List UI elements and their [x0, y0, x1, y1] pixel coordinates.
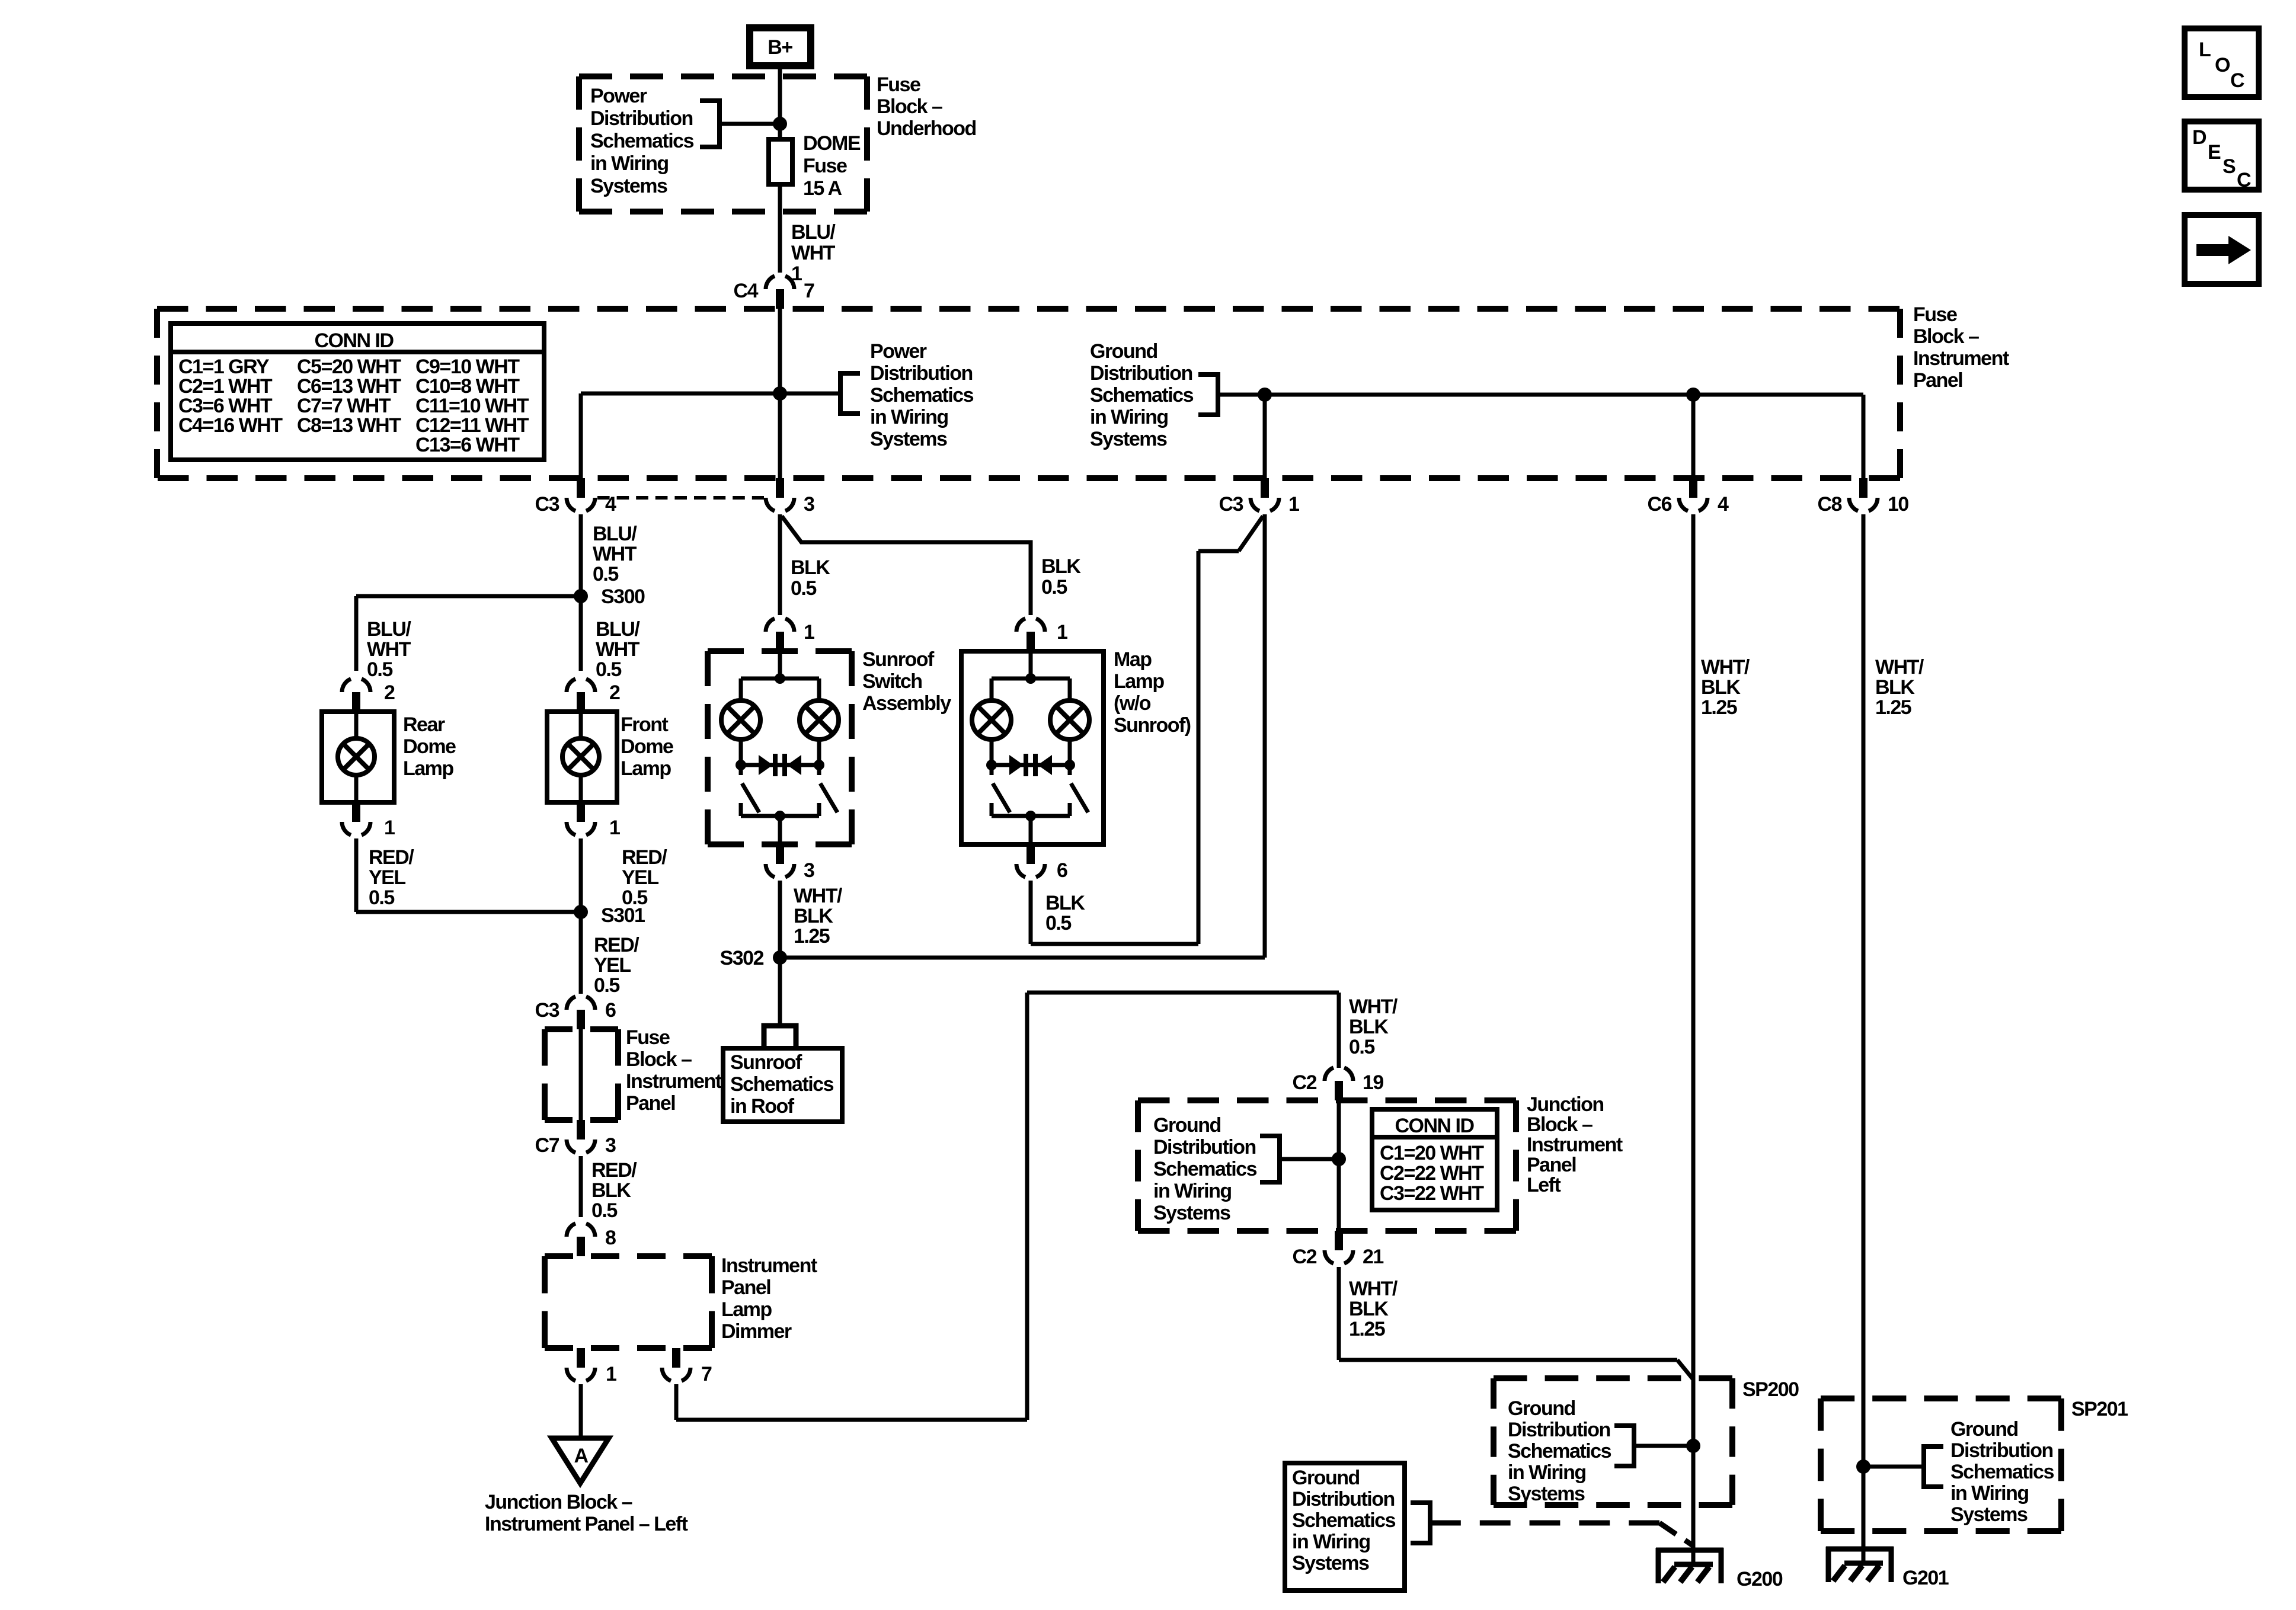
- svg-text:Panel: Panel: [721, 1276, 770, 1299]
- wire B+ to fuse: [778, 69, 782, 139]
- svg-text:in Wiring: in Wiring: [1950, 1482, 2029, 1505]
- svg-text:YEL: YEL: [622, 866, 658, 889]
- svg-text:4: 4: [1718, 493, 1729, 516]
- svg-text:3: 3: [605, 1134, 616, 1157]
- svg-text:WHT/: WHT/: [794, 885, 843, 907]
- label ground distribution (SP200): [1508, 1397, 1611, 1505]
- svg-text:BLK: BLK: [791, 556, 830, 579]
- svg-text:C3: C3: [535, 999, 559, 1022]
- wire rear dome to S301: [356, 838, 581, 912]
- svg-text:1: 1: [1288, 493, 1299, 516]
- wire C3-3 branch to map lamp: [782, 516, 1031, 615]
- svg-text:C2=22 WHT: C2=22 WHT: [1380, 1162, 1484, 1185]
- fuse block underhood dashed box: [579, 76, 867, 212]
- bracket ground distribution box: [1411, 1503, 1430, 1543]
- label wire WHT/BLK 1.25 (C8): [1875, 656, 1924, 719]
- svg-text:7: 7: [701, 1363, 712, 1385]
- svg-text:C4: C4: [734, 280, 759, 302]
- svg-text:0.5: 0.5: [1349, 1036, 1374, 1058]
- node power tap: [773, 117, 787, 131]
- fuse block IP small dashed box: [545, 1029, 618, 1120]
- wire main inside fuse block: [778, 309, 782, 478]
- label map lamp: [1114, 648, 1191, 737]
- map lamp box: [961, 651, 1104, 844]
- svg-text:Systems: Systems: [1090, 428, 1167, 450]
- label front dome lamp: [621, 713, 673, 780]
- wire bracket to node: [720, 122, 780, 126]
- wire S302 to C3-1: [780, 514, 1265, 958]
- svg-text:C7: C7: [535, 1134, 559, 1157]
- svg-text:Systems: Systems: [1153, 1202, 1230, 1224]
- svg-text:WHT: WHT: [367, 638, 411, 661]
- svg-text:0.5: 0.5: [367, 658, 392, 681]
- svg-text:Distribution: Distribution: [1292, 1488, 1395, 1510]
- svg-text:in Wiring: in Wiring: [1090, 406, 1168, 428]
- svg-text:21: 21: [1363, 1246, 1383, 1268]
- wire power bus: [581, 392, 840, 396]
- ground distribution solid box (left of G200): [1285, 1463, 1405, 1590]
- wire dimmer pin1 to junction block triangle: [579, 1384, 583, 1437]
- svg-text:0.5: 0.5: [1045, 912, 1071, 934]
- svg-text:Fuse: Fuse: [626, 1026, 670, 1049]
- instrument panel lamp dimmer dashed box: [545, 1256, 712, 1348]
- svg-text:BLU/: BLU/: [593, 523, 637, 545]
- label power distribution schematics (IP): [870, 340, 974, 450]
- svg-text:CONN ID: CONN ID: [314, 329, 394, 352]
- svg-text:Distribution: Distribution: [1508, 1419, 1610, 1441]
- svg-text:CONN ID: CONN ID: [1395, 1115, 1474, 1137]
- icon box LOC: [2185, 28, 2259, 97]
- wire map pin6 ground loop: [1031, 516, 1263, 944]
- svg-text:1.25: 1.25: [794, 925, 830, 948]
- svg-text:YEL: YEL: [594, 954, 631, 977]
- svg-text:S302: S302: [720, 947, 764, 969]
- label sunroof switch assembly: [862, 648, 951, 715]
- svg-text:1: 1: [609, 817, 620, 839]
- ground G201: [1826, 1547, 1949, 1589]
- svg-text:C3: C3: [1219, 493, 1243, 516]
- svg-text:Schematics: Schematics: [1153, 1158, 1257, 1180]
- svg-text:Block –: Block –: [1527, 1113, 1593, 1136]
- bracket power distribution underhood: [700, 101, 720, 147]
- svg-text:C6: C6: [1648, 493, 1672, 516]
- svg-text:WHT: WHT: [596, 638, 640, 661]
- svg-text:SP201: SP201: [2071, 1398, 2128, 1420]
- wire C3 internal dashed link: [597, 496, 764, 500]
- connector sunroof switch pin 3: [766, 844, 814, 882]
- svg-text:Distribution: Distribution: [590, 107, 693, 130]
- label wire RED/YEL 0.5 (below S301): [594, 934, 639, 997]
- wire C3-3 to sunroof switch: [778, 514, 782, 615]
- svg-text:Junction Block –: Junction Block –: [485, 1491, 632, 1513]
- wire ground bus: [1218, 393, 1863, 397]
- connector dimmer pin 7: [662, 1348, 712, 1385]
- svg-text:Ground: Ground: [1292, 1467, 1360, 1489]
- svg-text:Schematics: Schematics: [590, 130, 694, 152]
- svg-text:C3: C3: [535, 493, 559, 516]
- wire fuse to C4: [778, 184, 782, 273]
- label ground distribution (SP201): [1950, 1418, 2054, 1526]
- label wire WHT/BLK 1.25 (C6): [1701, 656, 1750, 719]
- node ground bus to C3-1: [1258, 388, 1272, 402]
- svg-text:0.5: 0.5: [591, 1199, 617, 1222]
- svg-text:10: 10: [1888, 493, 1908, 516]
- svg-text:8: 8: [605, 1227, 616, 1249]
- svg-text:0.5: 0.5: [593, 563, 618, 585]
- svg-text:Instrument: Instrument: [626, 1070, 722, 1093]
- svg-text:BLK: BLK: [1875, 676, 1915, 699]
- connector dimmer pin 1: [567, 1348, 616, 1385]
- wire front dome to S301: [579, 838, 583, 912]
- label wire BLU/WHT 0.5 (rear branch): [367, 618, 411, 681]
- svg-text:Instrument Panel – Left: Instrument Panel – Left: [485, 1513, 688, 1535]
- svg-text:RED/: RED/: [591, 1159, 637, 1182]
- wire S300 branch left: [356, 596, 581, 671]
- label instrument panel lamp dimmer: [721, 1254, 817, 1343]
- svg-text:Ground: Ground: [1950, 1418, 2018, 1441]
- map lamp internals: [972, 651, 1089, 844]
- svg-text:Front: Front: [621, 713, 669, 736]
- svg-text:19: 19: [1363, 1071, 1383, 1094]
- junction block dashed box: [1138, 1100, 1516, 1231]
- power terminal B+: [750, 28, 811, 66]
- svg-text:Systems: Systems: [590, 175, 667, 197]
- splice SP200 dashed box: [1494, 1378, 1732, 1505]
- connector dimmer pin 8: [567, 1224, 616, 1256]
- wire S301 to C3-6: [579, 912, 583, 994]
- svg-text:Power: Power: [870, 340, 927, 363]
- svg-text:BLU/: BLU/: [596, 618, 640, 641]
- svg-text:0.5: 0.5: [791, 577, 816, 600]
- svg-text:S: S: [2223, 155, 2236, 178]
- svg-text:WHT/: WHT/: [1349, 996, 1398, 1018]
- svg-text:S300: S300: [601, 585, 645, 608]
- connector rear dome pin 1: [342, 802, 395, 839]
- node S302: [720, 947, 787, 969]
- label SP200: [1742, 1378, 1799, 1401]
- svg-text:Map: Map: [1114, 648, 1152, 671]
- svg-text:BLK: BLK: [1041, 555, 1081, 578]
- svg-text:D: D: [2192, 126, 2207, 149]
- svg-text:Underhood: Underhood: [877, 117, 976, 140]
- splice SP201 dashed box: [1821, 1398, 2061, 1531]
- connector rear dome pin 2: [342, 679, 395, 712]
- svg-text:in Wiring: in Wiring: [870, 406, 948, 428]
- svg-text:Schematics: Schematics: [1090, 384, 1194, 406]
- svg-text:Schematics: Schematics: [870, 384, 974, 406]
- bracket ground distribution IP: [1198, 375, 1218, 415]
- svg-text:C4=16 WHT: C4=16 WHT: [178, 414, 283, 437]
- label junction block: [1527, 1093, 1623, 1196]
- label ground distribution schematics (IP): [1090, 340, 1194, 450]
- wire C2-21 to SP200: [1339, 1267, 1693, 1379]
- svg-text:Power: Power: [590, 85, 647, 107]
- label rear dome lamp: [403, 713, 456, 780]
- svg-text:C: C: [2230, 69, 2244, 92]
- node ground bus to C6-4: [1686, 388, 1700, 402]
- wire ground drop to C6-4: [1691, 395, 1696, 478]
- svg-text:15 A: 15 A: [803, 177, 842, 200]
- connector map lamp pin 1: [1016, 619, 1067, 651]
- dashed wire to G200: [1430, 1523, 1693, 1545]
- bracket power distribution IP: [840, 373, 860, 414]
- svg-text:1.25: 1.25: [1875, 696, 1911, 719]
- node S301: [574, 904, 645, 927]
- node junction block splice: [1332, 1152, 1346, 1166]
- connector C2 pin 19: [1293, 1068, 1384, 1100]
- svg-text:3: 3: [804, 859, 814, 882]
- svg-text:Ground: Ground: [1153, 1114, 1221, 1137]
- svg-text:1: 1: [804, 621, 814, 644]
- label DOME fuse 15A: [803, 132, 861, 200]
- connector C3 pin 6: [535, 997, 616, 1029]
- svg-text:Instrument: Instrument: [721, 1254, 817, 1277]
- svg-text:1: 1: [606, 1363, 616, 1385]
- svg-text:Rear: Rear: [403, 713, 445, 736]
- svg-text:Distribution: Distribution: [1153, 1136, 1256, 1158]
- svg-text:C13=6 WHT: C13=6 WHT: [415, 434, 520, 456]
- svg-text:C1=20 WHT: C1=20 WHT: [1380, 1142, 1484, 1164]
- label wire RED/BLK 0.5: [591, 1159, 637, 1222]
- svg-text:2: 2: [609, 681, 620, 704]
- svg-text:Sunroof): Sunroof): [1114, 714, 1191, 737]
- svg-text:BLK: BLK: [591, 1179, 631, 1202]
- svg-text:Block –: Block –: [626, 1048, 692, 1071]
- svg-text:E: E: [2208, 141, 2221, 164]
- svg-text:RED/: RED/: [594, 934, 639, 956]
- CONN ID table: [171, 324, 544, 460]
- svg-text:BLU/: BLU/: [367, 618, 411, 641]
- svg-text:7: 7: [804, 280, 814, 302]
- svg-text:C: C: [2237, 169, 2251, 191]
- svg-text:L: L: [2199, 39, 2211, 61]
- svg-text:1: 1: [1057, 621, 1067, 644]
- node SP201 splice: [1856, 1459, 1870, 1474]
- svg-text:Systems: Systems: [1950, 1503, 2028, 1526]
- svg-text:Schematics: Schematics: [1950, 1461, 2054, 1483]
- svg-text:SP200: SP200: [1742, 1378, 1799, 1401]
- svg-text:Lamp: Lamp: [403, 757, 453, 780]
- node power bus junction: [773, 386, 787, 401]
- wire sunroof pin3 to S302: [778, 881, 782, 958]
- label wire WHT/BLK 1.25 (sunroof): [794, 885, 843, 948]
- svg-text:2: 2: [384, 681, 395, 704]
- svg-text:Ground: Ground: [1508, 1397, 1575, 1420]
- connector C7 pin 3: [535, 1120, 616, 1157]
- svg-text:BLK: BLK: [1349, 1298, 1389, 1320]
- svg-text:Distribution: Distribution: [870, 362, 973, 385]
- svg-text:Sunroof: Sunroof: [862, 648, 935, 671]
- svg-text:1.25: 1.25: [1349, 1318, 1385, 1340]
- node S300: [574, 585, 645, 608]
- connector C4 pin 7: [734, 276, 814, 309]
- svg-text:Dome: Dome: [621, 735, 673, 758]
- label ground distribution (junction block): [1153, 1114, 1257, 1224]
- label wire BLK 0.5 (map): [1041, 555, 1081, 598]
- svg-text:B+: B+: [768, 36, 792, 59]
- svg-text:in Wiring: in Wiring: [1508, 1461, 1586, 1484]
- svg-text:S301: S301: [601, 904, 645, 927]
- CONN ID table (junction block): [1372, 1109, 1497, 1210]
- svg-text:in Roof: in Roof: [730, 1095, 795, 1118]
- svg-text:Panel: Panel: [1913, 369, 1962, 392]
- wire SP201 splice to bracket: [1863, 1465, 1924, 1469]
- label wire RED/YEL 0.5 (rear): [369, 846, 414, 909]
- svg-text:Block –: Block –: [877, 95, 942, 118]
- svg-text:Lamp: Lamp: [621, 757, 671, 780]
- junction block triangle A: [552, 1438, 609, 1483]
- connector C3 pin 1: [1219, 478, 1299, 516]
- label wire WHT/BLK 0.5 (to C2-19): [1349, 996, 1398, 1058]
- svg-text:RED/: RED/: [369, 846, 414, 869]
- svg-text:Junction: Junction: [1527, 1093, 1604, 1116]
- svg-text:G201: G201: [1902, 1567, 1949, 1589]
- svg-text:O: O: [2215, 54, 2230, 76]
- label fuse block underhood: [877, 73, 976, 140]
- svg-text:Dome: Dome: [403, 735, 456, 758]
- wire C8-10 to G201: [1862, 514, 1866, 1563]
- svg-text:BLK: BLK: [794, 905, 833, 927]
- svg-text:WHT/: WHT/: [1875, 656, 1924, 678]
- label wire BLU/WHT 0.5 (C3-4): [593, 523, 637, 585]
- svg-text:Distribution: Distribution: [1090, 362, 1192, 385]
- svg-text:C8=13 WHT: C8=13 WHT: [297, 414, 401, 437]
- svg-text:in Wiring: in Wiring: [590, 152, 669, 175]
- sunroof schematics in roof box: [723, 1048, 842, 1122]
- label fuse block instrument panel: [1913, 303, 2009, 392]
- svg-text:(w/o: (w/o: [1114, 692, 1151, 715]
- svg-text:1.25: 1.25: [1701, 696, 1737, 719]
- label wire WHT/BLK 1.25 (C2-21): [1349, 1278, 1398, 1340]
- svg-text:Systems: Systems: [1508, 1483, 1585, 1505]
- connector C8 pin 10: [1818, 478, 1909, 516]
- wire power bus drop to C3-4: [579, 393, 583, 478]
- svg-text:Dimmer: Dimmer: [721, 1320, 792, 1343]
- svg-text:C3=22 WHT: C3=22 WHT: [1380, 1182, 1484, 1205]
- wire dimmer pin7 to C2-19: [676, 993, 1339, 1420]
- node SP200 splice: [1686, 1439, 1700, 1453]
- connector C6 pin 4: [1648, 478, 1729, 516]
- svg-text:BLU/: BLU/: [791, 221, 836, 244]
- wire C6-4 to G200: [1691, 514, 1696, 1564]
- svg-text:Panel: Panel: [626, 1092, 675, 1115]
- svg-text:Lamp: Lamp: [1114, 670, 1164, 693]
- ground G200: [1656, 1548, 1783, 1590]
- roof schematic tab connector: [764, 1026, 796, 1050]
- sunroof switch assembly dashed box: [708, 651, 852, 844]
- svg-text:WHT/: WHT/: [1349, 1278, 1398, 1300]
- svg-text:C2: C2: [1293, 1246, 1317, 1268]
- connector C3 pin 3 (fuse output): [766, 478, 814, 516]
- front dome lamp: [547, 712, 617, 802]
- connector front dome pin 2: [567, 679, 620, 712]
- fuse DOME 15A: [769, 139, 792, 184]
- label power distribution schematics (underhood): [590, 85, 694, 197]
- svg-text:3: 3: [804, 493, 814, 516]
- label junction block IP left: [485, 1491, 688, 1535]
- connector front dome pin 1: [567, 802, 620, 839]
- wire bracket to splice: [1280, 1157, 1339, 1161]
- svg-text:G200: G200: [1737, 1568, 1783, 1590]
- svg-text:Instrument: Instrument: [1913, 347, 2009, 370]
- label wire BLU/WHT 1: [791, 221, 836, 285]
- label wire BLK 0.5 (map ground): [1045, 892, 1085, 934]
- svg-text:6: 6: [605, 999, 616, 1022]
- svg-text:1: 1: [384, 817, 395, 839]
- icon box arrow: [2185, 215, 2259, 284]
- connector C3 pin 4: [535, 478, 616, 516]
- svg-text:Fuse: Fuse: [803, 155, 847, 177]
- svg-text:Distribution: Distribution: [1950, 1439, 2053, 1462]
- svg-text:Switch: Switch: [862, 670, 922, 693]
- svg-text:Schematics: Schematics: [1292, 1509, 1396, 1532]
- wire C3-4 to S300 to front dome: [579, 514, 583, 671]
- svg-text:0.5: 0.5: [1041, 576, 1067, 598]
- svg-text:Schematics: Schematics: [1508, 1440, 1611, 1462]
- svg-text:Fuse: Fuse: [1913, 303, 1957, 326]
- svg-text:Lamp: Lamp: [721, 1298, 772, 1321]
- svg-text:Systems: Systems: [870, 428, 947, 450]
- svg-text:in Wiring: in Wiring: [1153, 1180, 1232, 1202]
- connector map lamp pin 6: [1016, 844, 1067, 882]
- label wire BLU/WHT 0.5 (below S300): [596, 618, 640, 681]
- wire inside junction block: [1337, 1100, 1341, 1231]
- bracket ground distribution (SP200): [1614, 1426, 1634, 1466]
- svg-text:Left: Left: [1527, 1174, 1561, 1196]
- svg-text:WHT: WHT: [791, 242, 836, 264]
- svg-text:Schematics: Schematics: [730, 1073, 834, 1096]
- sunroof switch internals: [721, 651, 839, 844]
- label wire BLK 0.5 (sunroof): [791, 556, 830, 600]
- svg-text:Assembly: Assembly: [862, 692, 951, 715]
- wire ground drop to C8-10: [1862, 395, 1866, 478]
- svg-text:RED/: RED/: [622, 846, 667, 869]
- svg-text:C2: C2: [1293, 1071, 1317, 1094]
- connector C2 pin 21: [1293, 1231, 1384, 1268]
- label SP201: [2071, 1398, 2128, 1420]
- svg-text:6: 6: [1057, 859, 1067, 882]
- label fuse block IP small: [626, 1026, 722, 1115]
- svg-text:0.5: 0.5: [594, 974, 619, 997]
- fuse block instrument panel dashed box: [157, 309, 1900, 478]
- svg-text:DOME: DOME: [803, 132, 861, 155]
- svg-text:0.5: 0.5: [369, 886, 394, 909]
- wire S302 to roof schematic: [778, 958, 782, 1028]
- svg-text:YEL: YEL: [369, 866, 405, 889]
- label wire RED/YEL 0.5 (front): [622, 846, 667, 909]
- bracket ground distribution (SP201): [1924, 1446, 1943, 1487]
- svg-text:Block –: Block –: [1913, 325, 1979, 348]
- svg-text:BLK: BLK: [1045, 892, 1085, 914]
- svg-text:C8: C8: [1818, 493, 1842, 516]
- wire bracket to SP200 splice: [1634, 1444, 1693, 1448]
- rear dome lamp: [322, 712, 394, 802]
- svg-text:Fuse: Fuse: [877, 73, 920, 96]
- svg-text:BLK: BLK: [1349, 1016, 1389, 1038]
- bracket ground distribution (junction block): [1260, 1136, 1280, 1182]
- svg-text:WHT: WHT: [593, 543, 637, 565]
- icon box DESC: [2185, 121, 2259, 191]
- svg-text:Sunroof: Sunroof: [730, 1051, 802, 1074]
- connector sunroof switch pin 1: [766, 619, 814, 651]
- svg-text:WHT/: WHT/: [1701, 656, 1750, 678]
- svg-text:Systems: Systems: [1292, 1552, 1369, 1574]
- svg-text:0.5: 0.5: [596, 658, 621, 681]
- svg-text:Ground: Ground: [1090, 340, 1157, 363]
- svg-text:Panel: Panel: [1527, 1154, 1576, 1176]
- wire ground drop to C3-1: [1263, 395, 1267, 478]
- svg-text:Instrument: Instrument: [1527, 1134, 1623, 1156]
